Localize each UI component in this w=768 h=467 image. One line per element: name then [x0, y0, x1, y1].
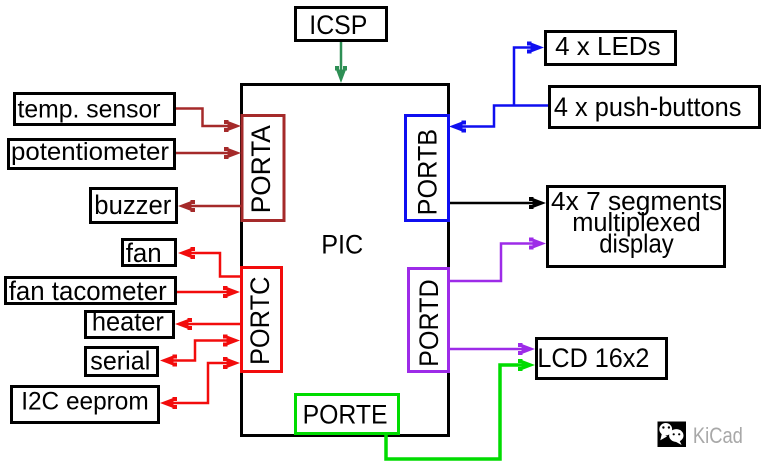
svg-text:I2C eeprom: I2C eeprom — [21, 388, 149, 416]
svg-text:PORTB: PORTB — [413, 129, 443, 216]
svg-text:4 x push-buttons: 4 x push-buttons — [554, 92, 742, 122]
svg-text:KiCad: KiCad — [693, 423, 743, 448]
svg-text:fan: fan — [126, 238, 162, 268]
svg-text:temp. sensor: temp. sensor — [18, 96, 161, 124]
svg-text:LCD 16x2: LCD 16x2 — [537, 343, 649, 373]
svg-text:PORTE: PORTE — [303, 399, 388, 429]
svg-text:heater: heater — [92, 309, 164, 337]
svg-text:buzzer: buzzer — [94, 190, 171, 220]
svg-text:PORTC: PORTC — [245, 277, 275, 366]
svg-text:4 x LEDs: 4 x LEDs — [555, 31, 661, 61]
svg-text:potentiometer: potentiometer — [11, 138, 169, 166]
svg-text:PORTA: PORTA — [246, 125, 276, 213]
svg-text:PORTD: PORTD — [414, 279, 444, 367]
svg-text:serial: serial — [90, 345, 150, 375]
svg-text:fan tacometer: fan tacometer — [9, 276, 167, 306]
svg-text:display: display — [599, 231, 674, 259]
svg-text:PIC: PIC — [321, 230, 363, 260]
svg-text:ICSP: ICSP — [309, 10, 367, 40]
